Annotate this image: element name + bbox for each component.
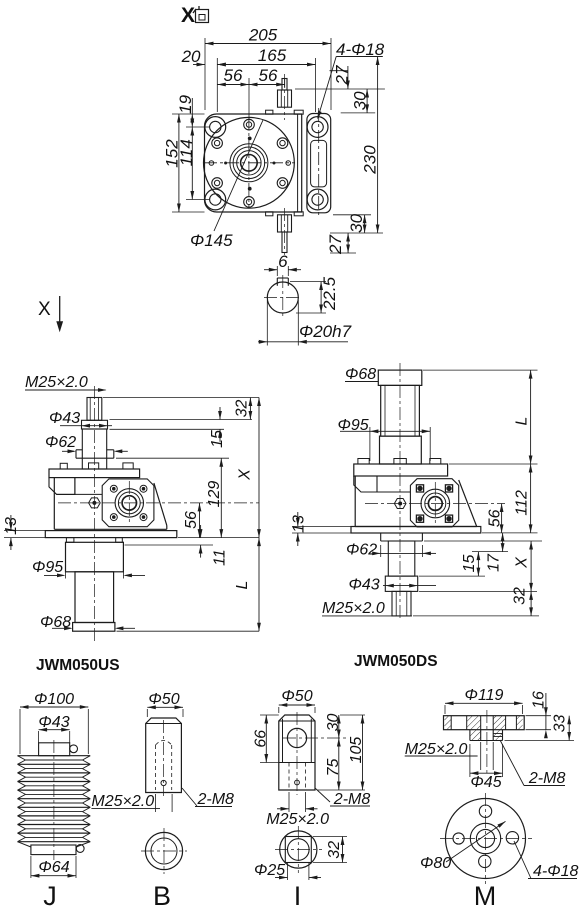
svg-text:M25×2.0: M25×2.0: [25, 374, 88, 391]
J top stub with grease nipple: [39, 743, 78, 756]
top view gear housing circle: [204, 117, 295, 208]
US dimension 56: [183, 503, 201, 538]
svg-text:2-M8: 2-M8: [333, 791, 371, 808]
dimension 27 top right: [330, 65, 352, 89]
M stem cross-section: [470, 730, 503, 741]
US right reference lines: [103, 398, 259, 632]
dimension 165: [217, 46, 315, 112]
label M: [474, 881, 497, 907]
svg-text:4-Φ18: 4-Φ18: [533, 863, 579, 880]
US dimension 11: [199, 525, 229, 566]
svg-text:X: X: [38, 299, 51, 320]
svg-text:J: J: [43, 881, 57, 907]
DS housing body: [354, 476, 477, 527]
DS label M25x2.0: [322, 600, 412, 617]
svg-text:JWM050DS: JWM050DS: [354, 653, 438, 670]
svg-text:Φ95: Φ95: [338, 417, 369, 434]
DS top cap phi68: [345, 363, 422, 620]
US dimension 15: [209, 407, 226, 448]
M dimension phi119: [445, 687, 523, 714]
top view mounting plate outline: [205, 114, 302, 212]
svg-text:13: 13: [291, 515, 308, 533]
svg-text:Φ62: Φ62: [45, 434, 76, 451]
label JWM050DS: [354, 653, 438, 670]
view label X-direction (X向): [181, 4, 209, 27]
svg-text:M25×2.0: M25×2.0: [266, 811, 329, 828]
DS worm boss octagon: [410, 479, 458, 527]
svg-text:13: 13: [3, 517, 20, 535]
J dimension phi100: [20, 691, 88, 754]
svg-text:15: 15: [461, 555, 478, 573]
top view input shaft top: [266, 74, 304, 120]
svg-text:27: 27: [333, 65, 352, 85]
DS screw rod M25: [392, 591, 411, 616]
top view corner holes 4-phi18: [205, 117, 328, 210]
DS neck cylinder: [388, 541, 415, 576]
dimension phi20h7: [258, 300, 352, 346]
B dimension phi50: [147, 691, 183, 717]
svg-text:152: 152: [163, 139, 182, 168]
top view right cover plate: [307, 108, 331, 218]
US tube phi68 and end cap: [40, 572, 135, 631]
svg-text:32: 32: [326, 841, 343, 859]
M label phi80 with leader: [420, 821, 506, 872]
I bottom circle view: [275, 826, 322, 873]
svg-text:30: 30: [325, 714, 342, 732]
US horizontal centerline: [58, 502, 259, 504]
svg-text:17: 17: [486, 553, 503, 572]
svg-text:Φ68: Φ68: [40, 614, 71, 631]
US dimension 13 base plate: [3, 515, 45, 550]
svg-text:X: X: [514, 556, 531, 569]
top view center bore circles: [204, 117, 295, 208]
svg-text:205: 205: [248, 26, 278, 45]
svg-text:165: 165: [258, 46, 287, 65]
US dimension 129: [206, 458, 223, 537]
DS worm boss bolts: [416, 485, 452, 523]
I dimension phi25: [254, 862, 321, 880]
M dimension 33: [505, 715, 575, 741]
bottom right ticks and dimension 30 bottom: [330, 213, 383, 233]
I dimension 66: [253, 715, 279, 763]
svg-text:Φ64: Φ64: [38, 859, 69, 876]
I dimension phi50: [279, 688, 315, 713]
svg-text:56: 56: [487, 509, 504, 527]
M dimension phi45: [470, 744, 503, 791]
svg-text:56: 56: [259, 66, 278, 85]
US worm shaft rings: [115, 481, 143, 525]
M label 4-phi18 with leader: [514, 841, 579, 880]
DS housing top flange: [354, 459, 448, 477]
US label M25x2.0: [25, 374, 107, 392]
US housing body: [49, 478, 167, 530]
US housing top flange: [49, 463, 140, 478]
M label M25x2.0: [405, 741, 494, 770]
DS mid tube section: [380, 436, 422, 464]
svg-text:2-M8: 2-M8: [197, 791, 235, 808]
svg-text:27: 27: [326, 235, 345, 255]
dimension 56 56: [217, 66, 284, 120]
svg-text:M25×2.0: M25×2.0: [322, 600, 385, 617]
svg-text:2-M8: 2-M8: [528, 770, 566, 787]
DS dimension 56: [487, 504, 504, 533]
svg-text:32: 32: [512, 587, 529, 605]
J bellows: [18, 740, 91, 860]
dimension 20: [181, 47, 230, 112]
US screw rod M25: [87, 386, 102, 641]
I dimension 30: [325, 714, 365, 739]
I dimension 75: [317, 738, 365, 790]
US dimension X: [237, 398, 261, 538]
M dimension 16: [526, 691, 552, 738]
JB label M25x2.0 shared: [91, 793, 160, 810]
DS right reference lines: [413, 370, 542, 616]
svg-text:M: M: [474, 881, 497, 907]
svg-text:6: 6: [278, 252, 288, 271]
DS hex plug: [394, 498, 406, 508]
dimension 27 bottom right: [326, 233, 356, 255]
label B: [153, 881, 171, 907]
M flange cross-section: [444, 710, 525, 775]
label JWM050US: [36, 657, 120, 674]
svg-text:Φ145: Φ145: [190, 231, 233, 250]
DS boss ring phi62 below base: [346, 533, 436, 559]
US dimension L: [234, 538, 261, 632]
B ext lines below: [156, 794, 173, 812]
top view bolt washers on phi145 circle: [212, 119, 288, 207]
svg-text:Φ50: Φ50: [148, 691, 179, 708]
J bottom stub with grease nipple: [31, 845, 84, 855]
DS dimension 13 base plate: [291, 512, 352, 546]
dimension 230 right: [361, 57, 380, 234]
I dimension 105: [348, 715, 365, 790]
svg-text:11: 11: [212, 549, 229, 566]
DS worm shaft rings: [421, 482, 450, 525]
dimension 22.5: [290, 276, 339, 313]
svg-text:66: 66: [253, 730, 270, 748]
US base plate: [45, 531, 177, 538]
US neck cylinder: [82, 429, 106, 469]
svg-text:105: 105: [348, 737, 365, 764]
svg-text:19: 19: [176, 94, 195, 113]
svg-text:L: L: [234, 581, 251, 590]
svg-text:32: 32: [234, 400, 251, 418]
US collar phi43: [49, 410, 112, 429]
J dimension phi64: [31, 856, 76, 878]
svg-text:33: 33: [552, 715, 569, 733]
svg-text:Φ95: Φ95: [32, 559, 63, 576]
I dimension M25x2.0: [266, 792, 329, 828]
svg-text:X: X: [237, 468, 254, 481]
svg-text:JWM050US: JWM050US: [36, 657, 120, 674]
svg-text:56: 56: [224, 66, 243, 85]
svg-text:Φ45: Φ45: [470, 774, 501, 791]
US protection tube phi95: [32, 538, 145, 579]
US worm boss octagon: [102, 479, 154, 527]
DS dimension phi95: [338, 417, 431, 461]
DS dimension 17: [486, 533, 505, 572]
svg-text:Φ20h7: Φ20h7: [299, 322, 352, 341]
svg-text:B: B: [153, 881, 171, 907]
DS dimension L: [514, 370, 533, 464]
svg-text:Φ68: Φ68: [345, 366, 376, 383]
label I: [294, 881, 302, 907]
US dimension 32: [234, 398, 253, 420]
svg-text:Φ100: Φ100: [34, 691, 74, 708]
svg-text:M25×2.0: M25×2.0: [405, 741, 468, 758]
top view input shaft bottom: [266, 208, 304, 255]
svg-text:112: 112: [514, 490, 531, 516]
I clevis block: [279, 712, 348, 795]
view direction arrow X: [38, 296, 63, 332]
J dimension phi43: [38, 714, 69, 743]
DS dimension 32: [512, 587, 534, 616]
top view small side holes and dots: [209, 137, 290, 190]
dimension 205 top: [205, 26, 331, 111]
B cylinder body: [146, 718, 182, 796]
svg-text:Φ62: Φ62: [346, 542, 377, 559]
svg-text:230: 230: [361, 145, 380, 175]
svg-text:22.5: 22.5: [320, 276, 339, 311]
svg-text:X: X: [181, 4, 195, 27]
dimension 19 and 114 left chain: [172, 94, 210, 199]
DS horizontal centerline: [365, 503, 505, 505]
DS dimension 112: [514, 464, 533, 533]
svg-text:Φ43: Φ43: [49, 410, 80, 427]
svg-text:Φ50: Φ50: [281, 688, 312, 705]
dimension 152 left: [163, 114, 205, 212]
svg-text:30: 30: [351, 91, 370, 110]
svg-text:56: 56: [183, 511, 200, 529]
DS base plate: [351, 527, 481, 534]
svg-text:20: 20: [181, 47, 201, 66]
DS dimension 15: [461, 552, 480, 577]
svg-text:Φ119: Φ119: [465, 687, 504, 704]
DS dimension X: [514, 541, 533, 591]
US worm boss bolts: [110, 485, 147, 520]
svg-text:Φ43: Φ43: [38, 714, 69, 731]
DS collar phi43: [349, 576, 437, 593]
I dimension 32: [313, 837, 347, 863]
dimension 6 keyway width: [264, 252, 301, 276]
svg-text:30: 30: [347, 213, 366, 232]
US hex plug: [89, 498, 101, 508]
svg-text:M25×2.0: M25×2.0: [91, 793, 154, 810]
US boss ring phi62: [45, 434, 128, 458]
svg-text:15: 15: [209, 430, 226, 448]
svg-text:16: 16: [531, 691, 548, 709]
dimension 30 top right: [295, 89, 385, 113]
B label 2-M8 with leader: [182, 788, 234, 808]
I label 2-M8 with leader: [315, 788, 370, 808]
label J: [43, 881, 57, 907]
svg-text:Φ25: Φ25: [254, 862, 285, 879]
M bottom circle view: [440, 793, 532, 884]
shaft section detail circle with keyway: [264, 275, 301, 318]
svg-text:129: 129: [206, 481, 223, 508]
svg-text:I: I: [294, 881, 302, 907]
label phi145 with leader: [190, 120, 263, 250]
label 4-phi18 with leader: [317, 40, 384, 120]
svg-text:L: L: [514, 417, 531, 426]
svg-text:75: 75: [325, 759, 342, 777]
svg-text:Φ43: Φ43: [349, 577, 380, 594]
B bottom circle view: [141, 828, 187, 874]
svg-text:Φ80: Φ80: [420, 855, 451, 872]
M label 2-M8 with leader: [500, 740, 565, 787]
